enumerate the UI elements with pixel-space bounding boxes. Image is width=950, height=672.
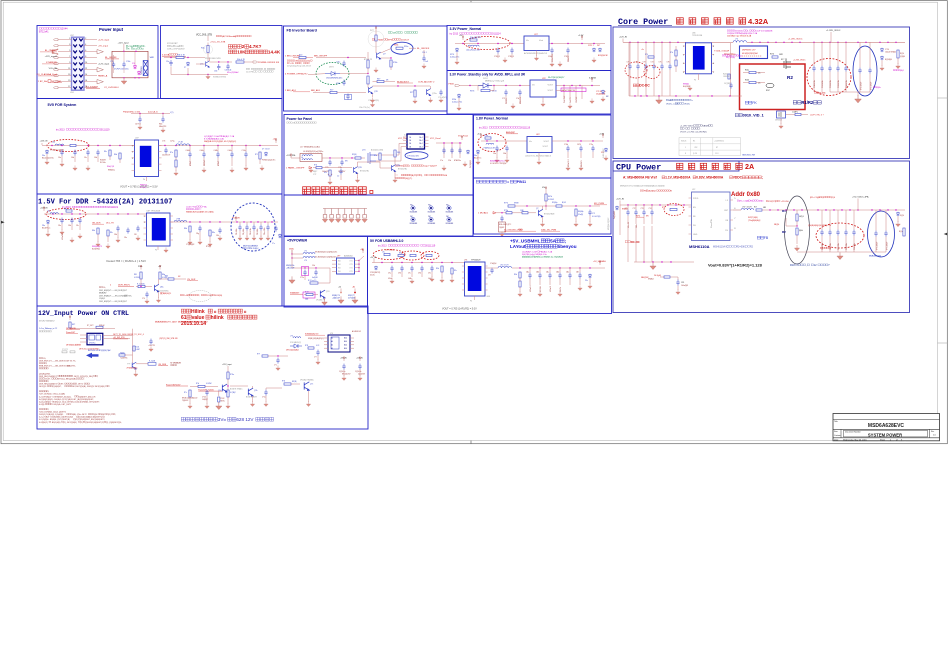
feedback divider usb [519, 272, 521, 278]
block 12V input ctrl border [37, 306, 368, 429]
svg-text:R?2b: R?2b [504, 210, 508, 212]
svg-text:Q8a: Q8a [160, 287, 163, 289]
svg-text:A: MSH6000A FB Vref: A: MSH6000A FB Vref [623, 176, 658, 180]
grounds before IC [60, 161, 64, 166]
main wire usb [372, 262, 465, 264]
svg-text:9(B): 9(B) [397, 152, 401, 154]
svg-text:R/C40e: R/C40e [100, 162, 106, 164]
svg-text:(B): (B) [50, 321, 53, 323]
IC U110 pins [683, 45, 686, 47]
note red why-series [228, 45, 232, 49]
svg-text:C44d: C44d [186, 150, 190, 152]
svg-text:BT546(TB): BT546(TB) [360, 171, 369, 173]
resistor below pin7 [728, 74, 730, 79]
svg-text:+12V_input: +12V_input [118, 42, 130, 45]
svg-text:JPG(B)T(2)NC: JPG(B)T(2)NC [126, 367, 138, 369]
svg-text:NC.BD(W)(2)CC(3)(W)(2)DC: NC.BD(W)(2)CC(3)(W)(2)DC [315, 257, 338, 259]
blue ellipse bulk caps core [853, 46, 877, 96]
svg-text:R5(B)a: R5(B)a [552, 202, 557, 204]
block backlight dimming border [474, 178, 612, 234]
svg-text:hilink: hilink [211, 315, 224, 321]
svg-text:C3b: C3b [214, 71, 217, 73]
svg-text:Q?4: Q?4 [326, 291, 329, 293]
svg-text:DHCHC]: DHCHC] [89, 343, 96, 345]
svg-text:8: 8 [85, 56, 86, 58]
svg-text:R24?: R24? [766, 90, 770, 92]
svg-text:4: 4 [85, 44, 86, 46]
ferrite bead L90 [292, 253, 303, 255]
svg-text:1/5(B)C: 1/5(B)C [99, 298, 106, 300]
svg-text:C104 470u: C104 470u [814, 80, 816, 88]
diode D100 [290, 344, 302, 348]
svg-text:3.3VSB: 3.3VSB [589, 78, 596, 80]
svg-text:C4?/5V: C4?/5V [135, 124, 142, 126]
frame zone tick top [470, 1, 472, 3]
svg-text:Size: Size [834, 431, 838, 433]
power stub VCC right [461, 136, 463, 140]
svg-text:470uF: 470uF [190, 160, 192, 166]
note green top right [388, 32, 390, 33]
svg-text:+1.26V_VDDC: +1.26V_VDDC [788, 39, 803, 41]
svg-text:C?4/0.5: C?4/0.5 [494, 56, 500, 58]
svg-text:Q?8: Q?8 [374, 91, 378, 93]
svg-text:+12V_input: +12V_input [98, 62, 110, 65]
transistor Q12 lower [369, 87, 373, 94]
svg-text:B(C)06(2)5.NC: B(C)06(2)5.NC [42, 158, 55, 160]
svg-text:C134 470u: C134 470u [838, 80, 840, 88]
svg-text:IN1: IN1 [338, 271, 341, 273]
svg-text:C2_LS/5V0B 4: C2_LS/5V0B 4 [104, 87, 119, 89]
svg-text:0.83V, MSH6000A: 0.83V, MSH6000A [696, 176, 724, 180]
svg-text:AO4805 NC: AO4805 NC [352, 330, 362, 333]
svg-text:20111119: 20111119 [425, 245, 436, 248]
mosfet Q50 [368, 152, 376, 164]
svg-text:NcZY5: NcZY5 [570, 98, 572, 104]
svg-text:L?2: L?2 [304, 251, 307, 253]
svg-text:470u/6.3: 470u/6.3 [530, 285, 532, 292]
svg-text:+5V_IN(B): +5V_IN(B) [385, 250, 394, 252]
svg-text:17: 17 [68, 86, 70, 88]
svg-text:C3a: C3a [166, 61, 169, 63]
svg-text:104b: 104b [408, 278, 412, 280]
svg-text:P(B): P(B) [187, 322, 191, 324]
svg-text:R?4b: R?4b [393, 62, 397, 64]
svg-text:R_5(2)B: R_5(2)B [149, 361, 155, 363]
caps inside blue ellipse [238, 225, 241, 231]
svg-text:5V5 FOR System: 5V5 FOR System [48, 103, 77, 107]
svg-text:? +R1 450: ? +R1 450 [779, 201, 789, 203]
svg-text:4 POWER_OFF/AUTO: 4 POWER_OFF/AUTO [285, 72, 308, 75]
svg-text:2: 2 [85, 38, 86, 40]
svg-text:C?4a: C?4a [242, 150, 246, 152]
svg-text:C9b: C9b [312, 265, 315, 267]
svg-text:20111119: 20111119 [100, 129, 111, 132]
diode D14 magenta pair [133, 65, 136, 69]
svg-text:NB(C)-USB(B)3.0a 23(2)(B)23: NB(C)-USB(B)3.0a 23(2)(B)23 [536, 257, 564, 259]
resistor R92 [306, 293, 313, 295]
svg-text:C7D5(SM712): C7D5(SM712) [370, 272, 381, 274]
svg-text:6700A: 6700A [376, 39, 383, 42]
svg-text:Wednesday, May 06, 2015: Wednesday, May 06, 2015 [843, 439, 867, 441]
svg-text:(B)C: (B)C [738, 55, 743, 57]
svg-text:13: 13 [68, 74, 70, 76]
big blue arrow [86, 353, 99, 359]
svg-text:C?4b: C?4b [564, 144, 568, 146]
capacitor C16 [346, 94, 349, 100]
size cell divider [840, 429, 842, 438]
svg-text:Z?: Z? [184, 67, 186, 69]
U60 output wire [552, 140, 603, 142]
capacitor C31 cpu [677, 277, 679, 280]
svg-text:MSD6A628EVC: MSD6A628EVC [868, 423, 905, 429]
svg-text:PDTC124EU NPN: PDTC124EU NPN [205, 58, 221, 60]
svg-text:R8h: R8h [165, 276, 168, 278]
resistor R86 pullup [140, 272, 142, 279]
svg-text:Power for Panel: Power for Panel [287, 117, 313, 121]
wire cpu output [762, 209, 905, 211]
title backlight dimming [476, 180, 479, 183]
transistor Q101 [222, 384, 227, 392]
svg-text:O4: O4 [409, 140, 411, 142]
zener usb out [588, 274, 591, 278]
svg-text:R4a 4.7K: R4a 4.7K [237, 59, 246, 61]
zener ZD30 [455, 48, 458, 52]
svg-text:O4.4: O4.4 [419, 137, 423, 139]
caps inside blue ellipse core [858, 68, 861, 74]
red dashed ellipse input filter 5V5 [47, 140, 89, 152]
svg-text:+B2: +B2 [352, 287, 355, 289]
svg-text:C?4b: C?4b [202, 397, 206, 399]
resistor R73 [522, 212, 528, 214]
power +1.8V [602, 134, 604, 138]
svg-text:8: 8 [685, 153, 686, 155]
svg-text:1 BY_Rst: 1 BY_Rst [38, 80, 48, 83]
svg-text:N(B)4(B)C(B)4 7.2A: N(B)4(B)C(B)4 7.2A [739, 32, 757, 35]
svg-text:MSH6110A IC: MSH6110A IC [713, 246, 728, 249]
svg-text:FB4(B)C 7.2A: FB4(B)C 7.2A [540, 251, 553, 254]
svg-text:OT1: OT1 [349, 264, 352, 266]
svg-text:628 12V: 628 12V [236, 417, 254, 422]
svg-text:L4: L4 [301, 157, 303, 159]
left rail cpu [634, 261, 694, 263]
svg-text:(T9a)(B)4(B)@: (T9a)(B)4(B)@ [748, 220, 761, 222]
output caps 1.8V [566, 146, 569, 152]
svg-text:E?5 470uF: E?5 470uF [871, 82, 873, 90]
wire usb output [512, 267, 605, 269]
svg-text:+5v: +5v [641, 49, 644, 51]
edge caps right DDR [274, 226, 277, 232]
svg-text:C1b: C1b [448, 160, 451, 162]
zener input 5V5 [45, 150, 48, 154]
feedback resistor chain [175, 150, 177, 157]
U60 ground pin [538, 153, 540, 161]
svg-text:C9d: C9d [418, 273, 421, 275]
sheet frame inner [3, 2, 937, 440]
svg-text:R8d: R8d [184, 228, 187, 230]
svg-text:DET(2)5: DET(2)5 [39, 386, 46, 388]
svg-text:+5VPOWER: +5VPOWER [287, 239, 307, 243]
svg-text:2: 2 [132, 152, 133, 154]
svg-text:R8c: R8c [110, 232, 113, 234]
resistor R52 [316, 167, 322, 169]
svg-text:MBo/105: MBo/105 [520, 97, 522, 104]
resistor EN divider usb [441, 266, 443, 272]
svg-text:B-E4(NR)C: B-E4(NR)C [92, 249, 101, 251]
cap C70 below [500, 216, 503, 222]
svg-text:18.5_TR: 18.5_TR [106, 223, 114, 225]
svg-text:9: 9 [69, 62, 70, 64]
resistor R60 [485, 137, 491, 139]
vertical feeds to rail [628, 42, 630, 96]
inductor L120 [733, 209, 741, 211]
ground Q12 [370, 97, 374, 102]
power label +5V_USBMHL [599, 261, 601, 265]
svg-text:Custom: Custom [834, 434, 841, 437]
svg-text:220uF/NC: 220uF/NC [552, 53, 554, 62]
svg-text:NR.BD(W)(2)CC(2)(W)(2).NC: NR.BD(W)(2)CC(2)(W)(2).NC [315, 252, 338, 254]
svg-text:C?1 C?2: C?1 C?2 [62, 349, 68, 351]
ground zener [455, 59, 459, 64]
svg-text:SGND2 BT/S2: SGND2 BT/S2 [213, 77, 227, 79]
svg-text:NC/0603K: NC/0603K [446, 212, 454, 214]
svg-text:C6b: C6b [503, 153, 506, 155]
svg-text:BT546(TB): BT546(TB) [398, 169, 407, 171]
svg-text:NR/W: NR/W [514, 203, 519, 205]
svg-text:R?4(C): R?4(C) [206, 246, 212, 248]
block 3.3V Power_Standby border [447, 71, 611, 115]
svg-text:C31: C31 [681, 282, 684, 284]
svg-text:PANEL-A: PANEL-A [98, 74, 108, 77]
svg-text:BRI_ON/OFF: BRI_ON/OFF [314, 56, 328, 58]
wire 1.8V main [481, 140, 527, 142]
svg-text:VOUT = 0.765 (1+R1/R2) = 5.0: VOUT = 0.765 (1+R1/R2) = 5.0V [442, 308, 477, 311]
svg-text:O4.4: O4.4 [419, 140, 423, 142]
svg-text:DC-DC: DC-DC [639, 84, 650, 88]
svg-text:Q?: Q? [383, 54, 386, 56]
svg-text:C20 220u: C20 220u [822, 243, 824, 250]
svg-text:R88(B)4(B)TV: R88(B)4(B)TV [92, 246, 103, 248]
mosfet VID switch [777, 111, 786, 118]
svg-text:Vout: Vout [539, 39, 543, 42]
caps before IC [60, 150, 63, 156]
wire clamp to base node [340, 73, 368, 75]
svg-text:B4.4: B4.4 [344, 348, 347, 350]
svg-text:73%,: 73%, [71, 366, 76, 368]
label red left of box [724, 54, 726, 55]
cap C89 and ground [145, 292, 148, 298]
svg-text:Vouted.765 = ( R1/R2+1 ) 1.5: Vouted.765 = ( R1/R2+1 ) 1.51V [106, 259, 146, 263]
long vertical wire to Q [132, 329, 134, 363]
svg-text:1.1V, MSH6100A: 1.1V, MSH6100A [665, 176, 691, 180]
svg-text:O4: O4 [409, 137, 411, 139]
svg-text:5V(B): 5V(B) [289, 249, 294, 251]
resistor R90 low side [304, 276, 306, 280]
svg-text:16: 16 [85, 80, 87, 82]
svg-text:4-2(B): 4-2(B) [39, 404, 45, 406]
svg-text:50/TTL 4(B)/T: 50/TTL 4(B)/T [166, 322, 178, 324]
svg-text:C8a: C8a [58, 225, 61, 227]
resistor R19 vertical [390, 60, 392, 67]
svg-text:(B)/4(B): (B)/4(B) [196, 322, 203, 324]
resistor R18 [396, 47, 403, 49]
svg-text:EMB_EN/3.5/T——BN_DDR/3.5/6/T: EMB_EN/3.5/T——BN_DDR/3.5/6/T [39, 366, 70, 368]
svg-text:+5V_input: +5V_input [98, 44, 108, 47]
svg-text:C144 470u: C144 470u [846, 80, 848, 88]
svg-text:C?4b: C?4b [126, 61, 130, 63]
ferrite bead L91 [292, 257, 303, 259]
svg-text:+3.3: +3.3 [477, 134, 481, 136]
svg-text:R7?b: R7?b [504, 203, 508, 205]
svg-text:6: 6 [85, 50, 86, 52]
vertical feed wire [291, 250, 293, 268]
vertical feeds cpu rail [627, 226, 629, 262]
svg-text:Pxxx/PW: Pxxx/PW [711, 218, 713, 228]
svg-text:C?R 220u/16V: C?R 220u/16V [407, 156, 420, 158]
svg-text:NPN: NPN [388, 40, 393, 42]
svg-text:R?d: R?d [282, 381, 285, 383]
svg-text:T(2)4R/NC: T(2)4R/NC [120, 358, 128, 360]
svg-text:C?8/0.5: C?8/0.5 [508, 56, 514, 58]
svg-text:U?4: U?4 [464, 260, 467, 262]
svg-text:1.8V Power_Normal: 1.8V Power_Normal [476, 117, 508, 121]
svg-text:C9e: C9e [428, 273, 431, 275]
svg-text:L4(C),R(C)/2.2uH: L4(C),R(C)/2.2uH [466, 50, 481, 52]
note blue select FK [745, 101, 748, 104]
capacitor Ctop2 [161, 117, 164, 123]
svg-text:C8e: C8e [124, 237, 127, 239]
svg-text:+5V_USBMHL: +5V_USBMHL [593, 261, 607, 263]
svg-text:NR(B)4: NR(B)4 [648, 279, 654, 281]
svg-text:R18: R18 [790, 263, 795, 267]
svg-text:C?4a: C?4a [336, 62, 340, 64]
svg-text:+VD_VDDC-1PA: +VD_VDDC-1PA [852, 196, 869, 199]
big dark ellipse R1R2 [785, 196, 810, 264]
IC ground core [698, 74, 700, 80]
svg-text:C?1: C?1 [592, 213, 595, 215]
svg-text:4-2(B)4(2): 4-2(B)4(2) [39, 422, 48, 424]
svg-text:LAYout: LAYout [510, 244, 526, 249]
svg-text:1147(B)1 tripv VDD24 6.2A: 1147(B)1 tripv VDD24 6.2A [727, 35, 752, 38]
block CPU Power border [613, 161, 910, 313]
svg-text:4.7(B)C: 4.7(B)C [230, 392, 237, 394]
svg-text:DNP93391 CS?: DNP93391 CS? [742, 50, 755, 52]
svg-text:R8b: R8b [92, 230, 95, 232]
svg-text:PS(5)5V(NC /2.5V): PS(5)5V(NC /2.5V) [123, 112, 140, 114]
svg-text:(B)4(B)5: (B)4(B)5 [874, 256, 881, 258]
zener output 5V5 [264, 152, 267, 156]
svg-text:4.7uF/10V C?R/1(B)V: 4.7uF/10V C?R/1(B)V [490, 163, 507, 165]
svg-text:+5b: +5b [338, 287, 341, 289]
svg-text:DDR_EN(3)5/T——EN_DDR(3)5/T: DDR_EN(3)5/T——EN_DDR(3)5/T [99, 290, 128, 292]
svg-text:BRI_ADJ: BRI_ADJ [311, 89, 320, 92]
svg-text:O4.4: O4.4 [419, 146, 423, 148]
svg-text:+1.8V: +1.8V [599, 134, 605, 136]
frame zone tick left [1, 221, 5, 224]
svg-text:15: 15 [68, 80, 70, 82]
ground bulk caps [855, 95, 862, 103]
svg-text:R?e: R?e [170, 152, 173, 154]
svg-text:C44a: C44a [228, 150, 232, 152]
resistor R4 output [236, 61, 244, 63]
caps input bank cpu [626, 210, 629, 216]
svg-text:4u(B)4F: 4u(B)4F [312, 277, 318, 279]
wire bottom rail [171, 74, 228, 76]
svg-text:R5?: R5? [330, 89, 333, 91]
ground output caps [202, 167, 206, 172]
svg-text:2+5V: 2+5V [184, 295, 189, 297]
resistor R23 [377, 80, 384, 82]
svg-text:104Pb5: 104Pb5 [576, 97, 578, 103]
svg-text:73%,: 73%, [128, 295, 133, 297]
svg-text:(2): (2) [80, 422, 83, 424]
svg-text:R2?: R2? [410, 92, 413, 94]
svg-text:R88(B)/a: R88(B)/a [108, 170, 115, 172]
note red hilink [181, 309, 185, 313]
main wire panel [291, 157, 300, 159]
power stub top [545, 187, 547, 191]
feedback network [189, 226, 191, 232]
svg-text:B4.4: B4.4 [344, 341, 347, 343]
svg-text:C?3: C?3 [643, 62, 646, 64]
cap near IC right [149, 339, 152, 345]
svg-text:1/(B): 1/(B) [520, 210, 524, 212]
svg-text:R.92: R.92 [305, 291, 309, 293]
wire input row [164, 57, 205, 59]
grounds ctrl right [205, 403, 209, 408]
svg-text:1.13: 1.13 [715, 153, 718, 155]
transistor Q103 right [304, 382, 309, 391]
svg-text:R(2)4: R(2)4 [900, 53, 904, 55]
svg-text:C8g: C8g [196, 233, 199, 235]
ground of filter [121, 78, 127, 85]
main input wire core [623, 41, 686, 43]
svg-text:R8e: R8e [212, 232, 215, 234]
svg-text:C?5: C?5 [659, 62, 662, 64]
svg-text:(2), DET(2)4(B): (2), DET(2)4(B) [64, 422, 77, 424]
svg-text:C4(?)NR: C4(?)NR [724, 83, 731, 85]
ground rail core [656, 96, 663, 104]
wire right rail [358, 261, 360, 272]
resistor R30 [470, 39, 477, 41]
svg-text:1 MC/ADJ: 1 MC/ADJ [478, 212, 488, 215]
cap below pin7 [729, 83, 732, 89]
bootstrap cap usb [490, 268, 493, 274]
svg-text:R17: R17 [754, 207, 757, 209]
svg-text:+12V_IN: +12V_IN [619, 37, 627, 39]
inductor L80 [50, 213, 58, 214]
svg-text:C6?4: C6?4 [577, 144, 581, 146]
svg-text:VDDC: VDDC [733, 176, 743, 180]
grounds bottom 5VP [324, 298, 326, 301]
block spare parts border [284, 195, 473, 236]
resistor R74 [556, 205, 562, 207]
caps inside red ellipse cpu [820, 230, 823, 236]
svg-text:(A,POKStandby: (A,POKStandby [222, 35, 236, 38]
svg-text:DET(2)4(2)5(B)4: DET(2)4(2)5(B)4 [286, 350, 299, 352]
block Power for Panel border [284, 115, 473, 196]
svg-text:NC/0603K: NC/0603K [410, 223, 418, 225]
svg-text:Pb/105: Pb/105 [506, 98, 508, 104]
resistor R54 vertical [379, 153, 381, 160]
svg-text:R9c: R9c [454, 270, 457, 272]
svg-text:R18b: R18b [394, 45, 398, 47]
svg-text:L92~4.7uH: L92~4.7uH [500, 265, 509, 267]
IC U40 pins left [132, 145, 135, 147]
note red pointing [640, 190, 642, 191]
svg-text:E?4 470uF: E?4 470uF [861, 82, 863, 90]
svg-text:C8j 470u: C8j 470u [243, 229, 245, 235]
svg-text:R88(B)4: R88(B)4 [683, 84, 689, 86]
